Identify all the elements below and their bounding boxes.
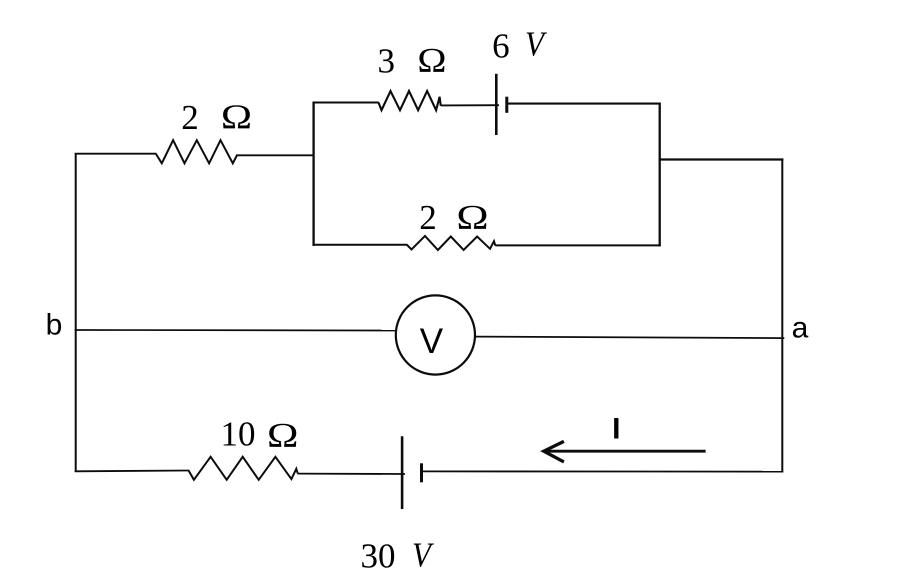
battery 6V long plate (+) [495, 74, 498, 135]
voltmeter V (circle) [396, 295, 475, 374]
svg-text:V: V [525, 25, 547, 64]
wire top-left horizontal (left rail to resistor 2Ω) [75, 153, 157, 155]
resistor R 3Ω (upper parallel branch) [379, 91, 441, 110]
svg-text:V: V [420, 322, 444, 361]
resistor R 10Ω (bottom branch) [188, 457, 297, 480]
wire middle horizontal from node b to voltmeter [75, 329, 396, 332]
value label 3 Ω [378, 42, 447, 81]
svg-text:Ω: Ω [221, 99, 252, 137]
wire battery 30V to right rail [421, 470, 784, 472]
wire 10Ω resistor to battery 30V [298, 473, 406, 475]
voltmeter letter V [420, 322, 444, 361]
wire connector from box right side to right rail (node a branch) [659, 158, 784, 160]
wire voltmeter to node a [476, 337, 785, 339]
svg-text:b: b [46, 309, 63, 342]
wire from 2Ω resistor to parallel-box left side [237, 154, 315, 156]
battery 30V long plate (+) [401, 436, 404, 509]
value label 2 Ω (series resistor) [181, 98, 252, 137]
svg-text:3: 3 [378, 42, 396, 81]
svg-text:6: 6 [492, 27, 510, 66]
node b label [46, 309, 63, 342]
value label 2 Ω (lower branch) [419, 198, 488, 237]
value label 10 Ω [221, 415, 299, 456]
resistor R 2Ω (series, top-left) [156, 140, 237, 163]
wire 3Ω resistor to battery 6V [441, 104, 499, 106]
battery 30V short plate (-) [420, 463, 423, 482]
wire right vertical rail (a branch) [781, 159, 783, 472]
wire 2Ω resistor to box right side [495, 244, 660, 246]
wire parallel-box right vertical [659, 103, 661, 247]
svg-text:Ω: Ω [267, 416, 298, 455]
resistor R 2Ω (lower parallel branch) [407, 236, 496, 250]
svg-text:I: I [612, 413, 620, 446]
current arrow I (pointing left) [544, 441, 706, 462]
battery 6V short plate (-) [505, 97, 508, 113]
wire parallel-box left vertical [312, 102, 314, 247]
wire battery 6V to box right side [506, 103, 661, 105]
svg-text:Ω: Ω [456, 198, 488, 237]
svg-text:Ω: Ω [417, 42, 446, 81]
svg-text:a: a [792, 311, 809, 344]
wire bottom-left horizontal (left rail to resistor 10Ω) [75, 470, 189, 473]
value label 30 V (battery) [361, 536, 435, 576]
svg-text:V: V [412, 536, 434, 575]
wire left vertical (node b branch, from top-left corner down to bottom-left corner) [75, 154, 77, 472]
wire box bottom branch (left part, to resistor 2Ω) [313, 244, 408, 246]
svg-text:2: 2 [419, 198, 437, 237]
value label 6 V (battery) [492, 25, 547, 66]
svg-text:30: 30 [361, 537, 396, 576]
node a label [792, 311, 809, 344]
svg-text:10: 10 [221, 415, 256, 454]
svg-text:2: 2 [181, 98, 199, 137]
wire box top branch (left part, to resistor 3Ω) [313, 101, 379, 103]
current label I [612, 413, 620, 446]
